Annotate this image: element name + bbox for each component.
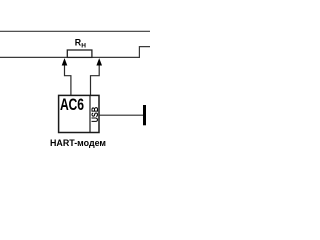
svg-text:Н: Н — [81, 43, 86, 50]
svg-text:HART-модем: HART-модем — [50, 138, 106, 148]
svg-text:USB: USB — [90, 107, 100, 123]
svg-text:АС6: АС6 — [60, 96, 84, 114]
